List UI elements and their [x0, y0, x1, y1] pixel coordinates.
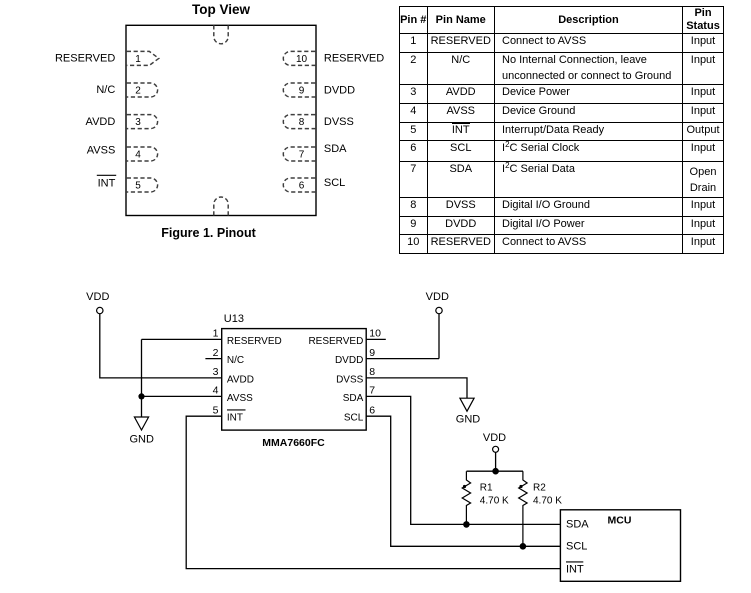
junction node VDD rail	[492, 468, 499, 475]
wire pin6 SCL net	[366, 416, 560, 546]
junction node R2/SCL	[520, 543, 527, 550]
wire pull-up rail	[467, 470, 524, 472]
pin 10 pad	[283, 51, 315, 65]
svg-text:1: 1	[213, 328, 219, 340]
pin 2 pad	[127, 83, 158, 97]
wire pin1 RESERVED to AVSS node	[142, 339, 222, 417]
svg-text:4: 4	[135, 149, 141, 160]
svg-text:DVSS: DVSS	[336, 374, 364, 385]
top orientation notch	[214, 25, 228, 43]
package outline	[126, 25, 316, 215]
ground GND (right)	[460, 398, 474, 411]
resistor R1	[462, 471, 470, 524]
svg-text:3: 3	[135, 117, 141, 128]
svg-text:R2: R2	[533, 483, 546, 494]
svg-text:VDD: VDD	[483, 432, 506, 444]
svg-text:10: 10	[369, 328, 381, 340]
wire pin5 INT to MCU	[186, 416, 560, 568]
svg-text:DVDD: DVDD	[324, 85, 355, 97]
wire pin10 RESERVED stub	[366, 338, 386, 340]
svg-text:1: 1	[135, 54, 141, 65]
svg-text:5: 5	[213, 404, 219, 416]
svg-text:DVSS: DVSS	[324, 116, 354, 128]
svg-text:4.70 K: 4.70 K	[533, 495, 562, 506]
svg-text:INT: INT	[98, 177, 116, 189]
svg-text:R1: R1	[480, 483, 493, 494]
svg-text:8: 8	[369, 366, 375, 378]
pin 9 pad	[283, 83, 315, 97]
svg-text:8: 8	[299, 117, 305, 128]
pin 4 pad	[127, 147, 158, 161]
svg-text:SDA: SDA	[343, 393, 364, 404]
svg-text:SDA: SDA	[566, 519, 589, 531]
svg-text:SCL: SCL	[324, 177, 345, 189]
wire VDD to AVDD pin3	[100, 314, 222, 378]
wire pin4 AVSS	[142, 395, 222, 397]
junction node AVSS/GND	[138, 393, 144, 399]
R2 wiper dot	[519, 485, 522, 488]
svg-text:RESERVED: RESERVED	[227, 336, 282, 347]
svg-text:U13: U13	[224, 313, 244, 325]
wire pin7 SDA net	[366, 396, 560, 524]
svg-text:VDD: VDD	[426, 291, 449, 303]
svg-text:DVDD: DVDD	[335, 355, 363, 366]
svg-text:RESERVED: RESERVED	[308, 336, 363, 347]
R1 wiper dot	[463, 485, 466, 488]
svg-text:N/C: N/C	[227, 355, 244, 366]
junction node R1/SDA	[463, 521, 470, 528]
pin 7 pad	[283, 147, 315, 161]
svg-text:N/C: N/C	[96, 84, 115, 96]
pin description table	[399, 6, 724, 254]
svg-text:AVDD: AVDD	[86, 116, 116, 128]
svg-text:2: 2	[135, 86, 141, 97]
svg-text:MMA7660FC: MMA7660FC	[262, 437, 325, 449]
svg-text:INT: INT	[227, 413, 243, 424]
wire pin2 N/C stub	[205, 358, 221, 360]
MCU body	[560, 510, 680, 582]
pin 1 pad	[127, 51, 159, 65]
svg-text:SCL: SCL	[344, 413, 364, 424]
wire pin8 DVSS to GND	[366, 378, 467, 398]
svg-text:VDD: VDD	[86, 291, 109, 303]
resistor R2	[519, 471, 527, 546]
wire pin9 DVDD to VDD	[366, 314, 439, 359]
U13 INT overline	[227, 409, 246, 411]
svg-text:GND: GND	[456, 413, 481, 425]
svg-text:AVSS: AVSS	[87, 144, 116, 156]
svg-text:6: 6	[369, 404, 375, 416]
svg-text:2: 2	[213, 347, 219, 359]
svg-text:4: 4	[213, 385, 219, 397]
svg-text:4.70 K: 4.70 K	[480, 495, 509, 506]
svg-text:3: 3	[213, 366, 219, 378]
pin 3 pad	[127, 115, 158, 129]
svg-text:7: 7	[299, 149, 305, 160]
svg-text:GND: GND	[129, 434, 154, 446]
svg-text:9: 9	[369, 347, 375, 359]
figure title "Top View"	[126, 3, 316, 16]
svg-text:MCU: MCU	[608, 515, 632, 527]
svg-text:RESERVED: RESERVED	[55, 52, 115, 64]
power terminal VDD (middle)	[436, 307, 442, 313]
pin 5 pad	[127, 178, 158, 192]
pin 6 pad	[283, 178, 315, 192]
svg-text:SCL: SCL	[566, 541, 587, 553]
ground GND (left)	[134, 417, 148, 430]
power terminal VDD (left)	[97, 307, 103, 313]
svg-text:SDA: SDA	[324, 143, 347, 155]
bottom orientation notch	[214, 197, 228, 215]
figure caption	[161, 227, 255, 240]
svg-text:INT: INT	[566, 564, 584, 576]
svg-text:5: 5	[135, 180, 141, 191]
IC U13 MMA7660FC body	[222, 329, 367, 431]
svg-text:9: 9	[299, 86, 305, 97]
svg-text:10: 10	[296, 54, 308, 65]
wire VDD to pull-up rail	[495, 452, 497, 471]
svg-text:AVDD: AVDD	[227, 374, 254, 385]
svg-text:6: 6	[299, 180, 305, 191]
MCU INT overline	[566, 561, 583, 563]
power terminal VDD (pull-up rail)	[493, 446, 499, 452]
pinout INT overline	[97, 174, 116, 176]
pin 8 pad	[283, 115, 315, 129]
svg-text:AVSS: AVSS	[227, 393, 253, 404]
svg-text:7: 7	[369, 385, 375, 397]
svg-text:RESERVED: RESERVED	[324, 52, 384, 64]
